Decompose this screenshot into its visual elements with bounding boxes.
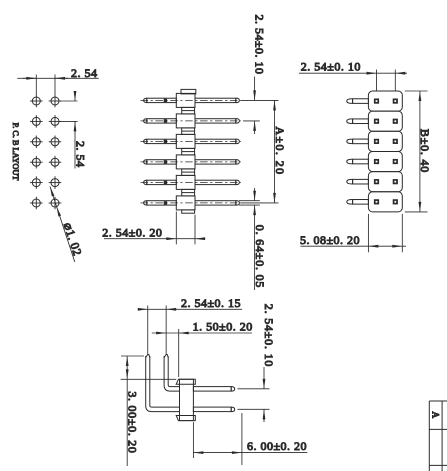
svg-text:2. 54±0. 10: 2. 54±0. 10 [301,60,361,74]
svg-text:P. C. B LAYOUT: P. C. B LAYOUT [11,123,20,181]
svg-text:A±0. 20: A±0. 20 [273,126,287,175]
svg-text:2. 54: 2. 54 [71,66,98,80]
svg-text:2. 54: 2. 54 [74,141,88,168]
svg-text:1. 50±0. 20: 1. 50±0. 20 [193,320,253,334]
svg-text:A: A [430,411,440,418]
svg-text:0. 64±0. 05: 0. 64±0. 05 [253,225,267,288]
svg-text:3. 00±0. 20: 3. 00±0. 20 [125,391,139,453]
svg-text:2. 54±0. 20: 2. 54±0. 20 [102,225,162,239]
svg-text:2. 54±0. 15: 2. 54±0. 15 [181,296,241,310]
svg-text:6. 00±0. 20: 6. 00±0. 20 [247,439,307,453]
svg-text:5. 08±0. 20: 5. 08±0. 20 [300,233,360,247]
svg-text:2. 54±0. 10: 2. 54±0. 10 [262,304,276,367]
svg-text:2. 54±0. 10: 2. 54±0. 10 [253,14,267,74]
svg-text:B±0. 40: B±0. 40 [418,129,432,173]
